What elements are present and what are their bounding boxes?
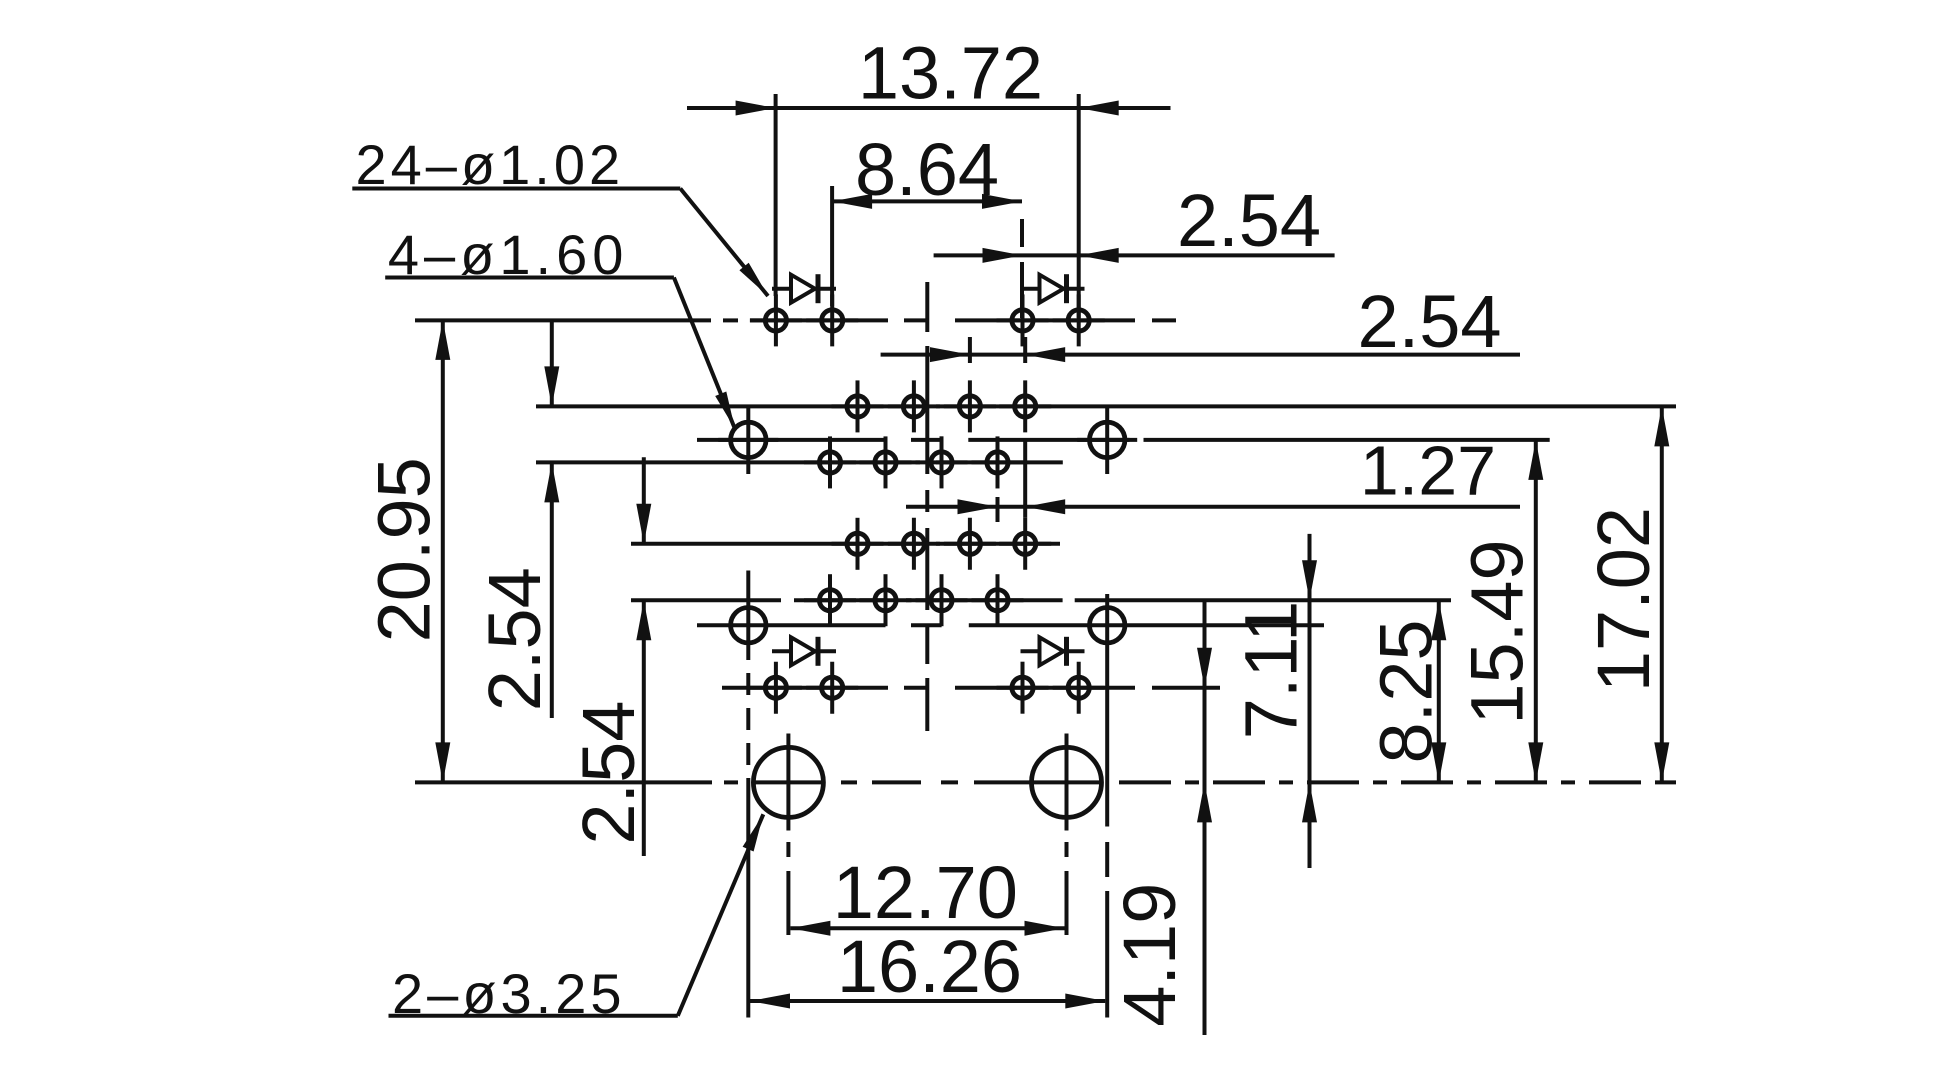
- dimension 15.49 text: [1456, 539, 1539, 724]
- hole D1 (phi1.02): [832, 518, 884, 570]
- hole A4 (phi1.02): [1053, 294, 1105, 346]
- dimension 8.64 extension lines: [832, 186, 1022, 318]
- hole E1 (phi1.02): [804, 574, 856, 626]
- hole D2 (phi1.02): [888, 518, 940, 570]
- row F center line: [722, 686, 1220, 690]
- link column B4-D4 to row M1: [1023, 440, 1027, 518]
- dimension 13.72 line and arrows: [687, 101, 1171, 116]
- svg-text:8.64: 8.64: [855, 128, 999, 211]
- dimension 8.64 text: [855, 128, 999, 211]
- dimension 2.54 left-lower text: [567, 701, 650, 845]
- label 2-phi3.25 text: [392, 962, 626, 1025]
- hole E2 (phi1.02): [860, 574, 912, 626]
- row M2 center line: [697, 623, 1324, 627]
- dimension 13.72 text: [858, 32, 1043, 115]
- diode D3 (bottom-left): [772, 637, 836, 666]
- extension hole C3 up to row M1: [940, 436, 944, 440]
- hole C2 (phi1.02): [860, 436, 912, 488]
- dimension 17.02 text: [1582, 507, 1665, 692]
- dimension 7.11 line and arrows: [1302, 534, 1317, 868]
- dimension 2.54 top line and arrows: [934, 248, 1335, 263]
- row D center line: [631, 542, 1060, 546]
- dimension 17.02 line and arrows: [1654, 406, 1669, 782]
- svg-text:8.25: 8.25: [1365, 619, 1448, 763]
- svg-text:12.70: 12.70: [833, 851, 1018, 934]
- vertical center line: [925, 282, 929, 731]
- svg-text:7.11: 7.11: [1230, 601, 1313, 740]
- dimension 12.70 text: [833, 851, 1018, 934]
- hole F3 (phi1.02): [997, 662, 1049, 714]
- dimension 20.95 text: [362, 457, 445, 642]
- hole B2 (phi1.02): [888, 380, 940, 432]
- dimension 4.19 text: [1108, 883, 1191, 1027]
- dimension 2.54 top text: [1177, 179, 1321, 262]
- mounting hole left (phi3.25): [753, 734, 823, 936]
- hole B1 (phi1.02): [832, 380, 884, 432]
- dimension 15.49 line and arrows: [1528, 440, 1543, 783]
- label 24-phi1.02 leader: [352, 189, 768, 297]
- label 4-phi1.60 text: [388, 223, 629, 286]
- dimension 2.54 right line and arrows: [881, 347, 1520, 362]
- dimension 8.64 line and arrows: [832, 194, 1022, 209]
- dimension 2.54 right text: [1357, 280, 1501, 363]
- dimension 1.27 text: [1360, 432, 1496, 510]
- hole M1-left (phi1.60): [718, 406, 778, 474]
- hole E4 (phi1.02): [972, 574, 1024, 626]
- dimension 20.95 line and arrows: [435, 320, 450, 783]
- label 2-phi3.25 leader: [389, 814, 764, 1016]
- dimension 8.25 text: [1365, 619, 1448, 763]
- svg-text:20.95: 20.95: [362, 457, 445, 642]
- hole A3 (phi1.02): [997, 294, 1049, 346]
- diode D1 (top-left): [772, 274, 836, 303]
- svg-text:2.54: 2.54: [1357, 280, 1501, 363]
- row E center line: [631, 598, 1451, 602]
- dimension 8.25 line and arrows: [1431, 600, 1446, 782]
- row A center line: [415, 318, 1176, 322]
- hole C3 (phi1.02): [916, 436, 968, 488]
- hole F2 (phi1.02): [806, 662, 858, 714]
- row M1 center line: [697, 438, 1550, 442]
- horizontal center line (mounting hole axis): [415, 780, 1676, 784]
- hole F1 (phi1.02): [750, 662, 802, 714]
- dimension 2.54 left-lower line and arrows: [636, 457, 651, 856]
- hole D4 (phi1.02): [999, 518, 1051, 570]
- hole M2-right (phi1.60): [1090, 594, 1125, 1018]
- dimension 1.27 extension ticks: [996, 478, 1000, 522]
- hole B3 (phi1.02): [944, 380, 996, 432]
- label 4-phi1.60 leader: [385, 278, 735, 430]
- hole C1 (phi1.02): [804, 436, 856, 488]
- label 24-phi1.02 text: [356, 133, 625, 196]
- row C center line: [536, 460, 1063, 464]
- dimension 7.11 text: [1230, 601, 1313, 740]
- hole A1 (phi1.02): [750, 294, 802, 346]
- hole M2-left (phi1.60): [731, 571, 766, 1018]
- svg-text:16.26: 16.26: [837, 925, 1022, 1008]
- svg-text:13.72: 13.72: [858, 32, 1043, 115]
- hole B4 (phi1.02): [999, 380, 1051, 432]
- svg-text:2.54: 2.54: [473, 567, 556, 711]
- mounting hole right (phi3.25): [1032, 734, 1102, 936]
- row B center line: [536, 404, 1676, 408]
- svg-text:2.54: 2.54: [1177, 179, 1321, 262]
- hole M1-right (phi1.60): [1077, 406, 1137, 474]
- dimension 16.26 line and arrows: [750, 994, 1105, 1009]
- dimension 16.26 text: [837, 925, 1022, 1008]
- hole C4 (phi1.02): [972, 436, 1024, 488]
- svg-text:2.54: 2.54: [567, 701, 650, 845]
- dimension 2.54 left-upper text: [473, 567, 556, 711]
- hole D3 (phi1.02): [944, 518, 996, 570]
- dimension 2.54 left-upper line and arrows: [544, 320, 559, 718]
- diode D2 (top-right): [1021, 274, 1085, 303]
- dimension 1.27 line and arrows: [906, 499, 1520, 514]
- dimension 13.72 extension lines: [776, 94, 1079, 318]
- svg-text:4.19: 4.19: [1108, 883, 1191, 1027]
- dimension 4.19 line and arrows: [1197, 600, 1212, 1035]
- dimension 12.70 line and arrows: [790, 921, 1064, 936]
- svg-text:15.49: 15.49: [1456, 539, 1539, 724]
- svg-text:17.02: 17.02: [1582, 507, 1665, 692]
- hole E3 (phi1.02): [916, 574, 968, 626]
- diode D4 (bottom-right): [1021, 637, 1085, 666]
- svg-text:1.27: 1.27: [1360, 432, 1496, 510]
- hole A2 (phi1.02): [806, 294, 858, 346]
- hole F4 (phi1.02): [1053, 662, 1105, 714]
- dimension 2.54 right extension ticks: [970, 337, 1025, 363]
